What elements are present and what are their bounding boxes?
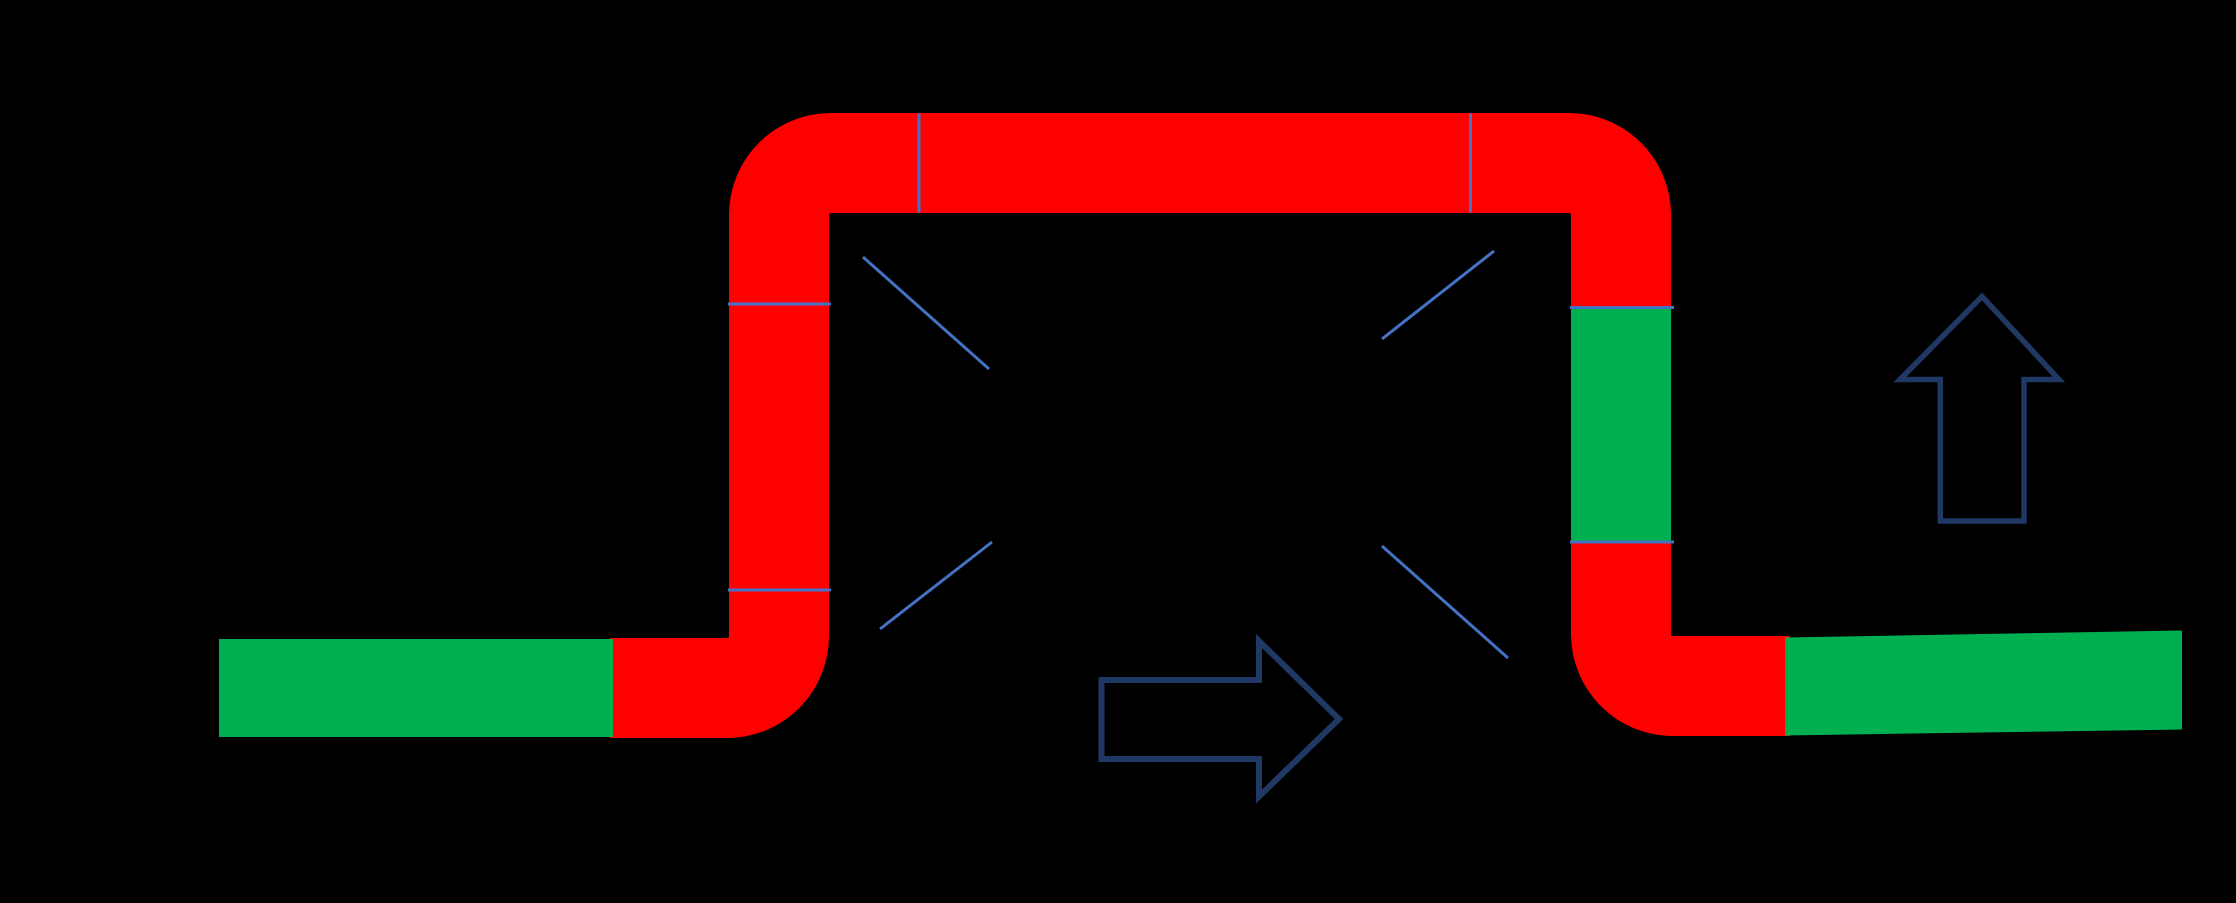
- diagonal callout lower-right: [1382, 546, 1508, 658]
- pipe red path: [610, 163, 1790, 688]
- green segment bottom-right (slanted): [1785, 631, 2182, 736]
- up arrow outline: [1900, 297, 2059, 522]
- green segment right column: [1571, 309, 1671, 541]
- tick top bar 1: [918, 114, 921, 213]
- tick right column upper: [1570, 306, 1674, 309]
- right arrow outline: [1102, 641, 1340, 797]
- diagonal callout upper-left: [863, 257, 989, 369]
- tick top bar 2: [1469, 114, 1472, 213]
- green segment bottom-left: [219, 639, 613, 737]
- tick right column lower: [1570, 541, 1674, 544]
- tick left column upper: [728, 303, 831, 306]
- tick left column lower: [728, 589, 831, 592]
- diagonal callout upper-right: [1382, 251, 1494, 339]
- diagonal callout lower-left: [880, 542, 992, 629]
